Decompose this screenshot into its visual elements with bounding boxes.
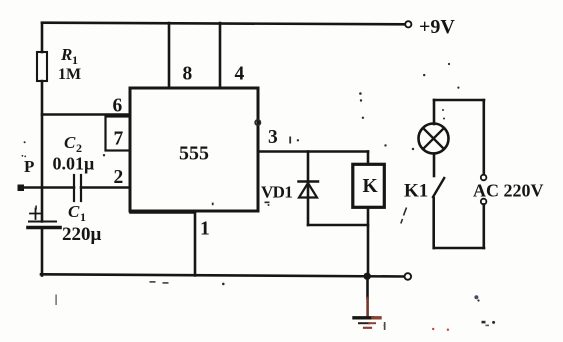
svg-text:VD1: VD1 bbox=[261, 183, 292, 202]
svg-text:1: 1 bbox=[200, 219, 210, 240]
svg-text:R: R bbox=[60, 45, 72, 64]
svg-text:+9V: +9V bbox=[419, 16, 455, 38]
svg-text:K: K bbox=[363, 176, 379, 197]
svg-text:8: 8 bbox=[183, 64, 193, 85]
svg-text:C: C bbox=[68, 202, 80, 221]
svg-text:6: 6 bbox=[113, 96, 123, 117]
svg-text:2: 2 bbox=[114, 167, 124, 188]
svg-text:1: 1 bbox=[80, 210, 86, 224]
svg-text:AC 220V: AC 220V bbox=[473, 181, 544, 201]
svg-text:C: C bbox=[64, 133, 76, 152]
svg-text:220μ: 220μ bbox=[62, 224, 102, 245]
svg-text:3: 3 bbox=[268, 127, 278, 148]
svg-text:7: 7 bbox=[114, 129, 124, 150]
svg-text:1M: 1M bbox=[58, 66, 81, 83]
svg-text:K1: K1 bbox=[404, 181, 428, 202]
svg-text:555: 555 bbox=[179, 143, 209, 165]
svg-text:4: 4 bbox=[235, 64, 245, 85]
svg-text:P: P bbox=[24, 157, 34, 176]
svg-text:1: 1 bbox=[72, 53, 78, 67]
svg-text:0.01μ: 0.01μ bbox=[53, 154, 95, 174]
